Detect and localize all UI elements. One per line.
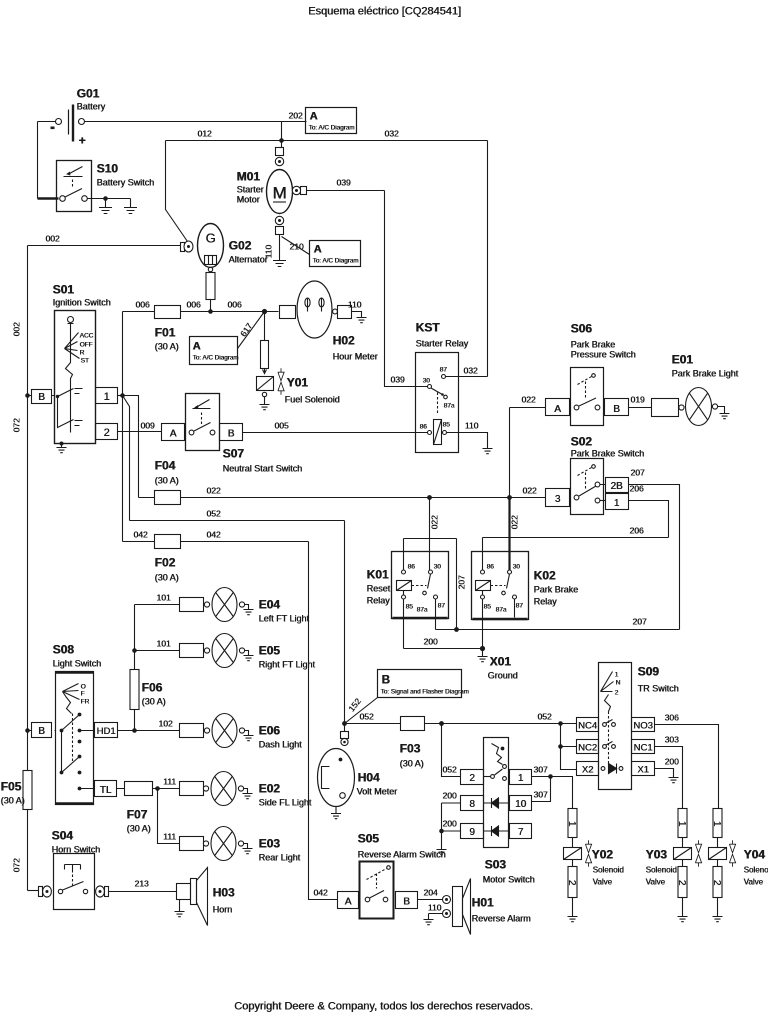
svg-text:2: 2 <box>103 427 109 439</box>
svg-text:E05: E05 <box>259 644 281 658</box>
svg-text:N: N <box>616 680 621 687</box>
svg-text:E03: E03 <box>259 837 281 851</box>
svg-text:8: 8 <box>469 799 475 810</box>
svg-text:G02: G02 <box>229 239 252 253</box>
svg-text:Park Brake: Park Brake <box>534 585 579 595</box>
svg-text:022: 022 <box>206 486 220 496</box>
svg-text:S02: S02 <box>571 435 593 449</box>
svg-text:NC4: NC4 <box>578 721 597 732</box>
svg-text:052: 052 <box>442 765 456 775</box>
svg-text:Neutral Start Switch: Neutral Start Switch <box>223 464 303 474</box>
svg-text:OFF: OFF <box>80 342 93 349</box>
svg-text:Motor: Motor <box>237 195 260 205</box>
svg-text:111: 111 <box>163 777 176 787</box>
svg-text:TL: TL <box>100 785 112 796</box>
svg-text:S09: S09 <box>638 665 660 679</box>
svg-text:(30 A): (30 A) <box>400 759 424 769</box>
svg-text:Fuel Solenoid: Fuel Solenoid <box>285 395 340 405</box>
svg-text:A: A <box>314 244 322 256</box>
svg-text:Park Brake Light: Park Brake Light <box>672 369 739 379</box>
svg-text:Reverse Alarm Switch: Reverse Alarm Switch <box>358 850 446 860</box>
svg-text:M01: M01 <box>237 170 261 184</box>
svg-text:85: 85 <box>406 604 414 611</box>
svg-text:Starter Relay: Starter Relay <box>416 339 469 349</box>
svg-text:1: 1 <box>711 821 722 827</box>
svg-text:X2: X2 <box>582 765 594 776</box>
svg-text:Alternator: Alternator <box>229 255 268 265</box>
svg-text:Reset: Reset <box>367 584 391 594</box>
svg-text:Solenoid: Solenoid <box>593 866 624 875</box>
svg-text:206: 206 <box>629 526 643 536</box>
svg-text:Y01: Y01 <box>287 376 309 390</box>
svg-text:Valve: Valve <box>744 878 764 887</box>
svg-text:022: 022 <box>510 515 520 529</box>
svg-text:86: 86 <box>408 564 416 571</box>
svg-text:Left FT Light: Left FT Light <box>259 614 310 624</box>
svg-text:87a: 87a <box>417 607 428 614</box>
svg-text:072: 072 <box>12 418 22 432</box>
svg-text:Y03: Y03 <box>646 848 668 862</box>
svg-text:2B: 2B <box>610 481 623 492</box>
svg-text:2: 2 <box>711 880 722 886</box>
svg-text:30: 30 <box>423 378 431 385</box>
svg-text:(30 A): (30 A) <box>155 342 179 352</box>
svg-text:B: B <box>613 404 620 415</box>
svg-text:072: 072 <box>12 858 22 872</box>
svg-text:Side FL Light: Side FL Light <box>259 798 312 808</box>
svg-text:A: A <box>310 111 318 123</box>
svg-text:200: 200 <box>665 757 679 767</box>
svg-text:30: 30 <box>513 564 521 571</box>
svg-text:110: 110 <box>428 903 442 913</box>
svg-text:Solenoid: Solenoid <box>744 866 768 875</box>
svg-text:1: 1 <box>676 821 687 827</box>
svg-text:A: A <box>345 897 352 908</box>
svg-text:S07: S07 <box>223 447 245 461</box>
svg-text:Park Brake: Park Brake <box>571 340 616 350</box>
svg-text:307: 307 <box>533 790 547 800</box>
svg-text:039: 039 <box>390 375 404 385</box>
svg-text:A: A <box>193 341 201 353</box>
svg-text:E06: E06 <box>259 724 281 738</box>
svg-text:E01: E01 <box>672 353 694 367</box>
svg-text:006: 006 <box>227 300 241 310</box>
svg-text:S04: S04 <box>52 829 74 843</box>
svg-text:005: 005 <box>274 421 288 431</box>
svg-text:87a: 87a <box>496 607 507 614</box>
svg-text:202: 202 <box>288 111 302 121</box>
svg-text:019: 019 <box>630 395 644 405</box>
svg-text:Volt Meter: Volt Meter <box>357 787 398 797</box>
svg-text:207: 207 <box>457 575 467 589</box>
svg-text:(30 A): (30 A) <box>1 796 25 806</box>
svg-text:B: B <box>403 897 410 908</box>
svg-text:Copyright Deere & Company, tod: Copyright Deere & Company, todos los der… <box>234 1001 533 1013</box>
svg-text:K02: K02 <box>534 569 556 583</box>
svg-text:200: 200 <box>442 819 456 829</box>
svg-text:Y04: Y04 <box>744 848 766 862</box>
svg-text:To: Signal and Flasher Diagram: To: Signal and Flasher Diagram <box>381 689 469 696</box>
svg-text:110: 110 <box>465 421 479 431</box>
svg-text:200: 200 <box>442 791 456 801</box>
svg-text:1: 1 <box>615 672 619 679</box>
svg-text:111: 111 <box>163 832 176 842</box>
svg-text:213: 213 <box>134 879 148 889</box>
svg-text:303: 303 <box>665 735 679 745</box>
svg-text:Starter: Starter <box>237 185 264 195</box>
svg-text:306: 306 <box>665 713 679 723</box>
svg-text:200: 200 <box>423 637 437 647</box>
svg-text:009: 009 <box>140 421 154 431</box>
svg-text:F: F <box>81 691 85 698</box>
svg-text:1: 1 <box>566 821 577 827</box>
svg-text:307: 307 <box>533 765 547 775</box>
svg-text:Reverse Alarm: Reverse Alarm <box>472 914 531 924</box>
svg-text:O: O <box>81 684 86 691</box>
svg-text:Battery Switch: Battery Switch <box>97 178 155 188</box>
svg-text:Battery: Battery <box>77 102 106 112</box>
svg-text:R: R <box>80 350 85 357</box>
svg-text:NC2: NC2 <box>578 743 597 754</box>
svg-text:1: 1 <box>518 773 524 784</box>
svg-text:S08: S08 <box>53 643 75 657</box>
svg-text:2: 2 <box>566 880 577 886</box>
svg-text:A: A <box>170 429 177 440</box>
svg-text:022: 022 <box>521 395 535 405</box>
svg-text:Pressure Switch: Pressure Switch <box>571 350 636 360</box>
svg-text:052: 052 <box>206 509 220 519</box>
svg-text:F03: F03 <box>400 742 421 756</box>
svg-text:H02: H02 <box>333 334 355 348</box>
svg-text:B: B <box>382 675 390 687</box>
svg-text:(30 A): (30 A) <box>127 824 151 834</box>
svg-text:H04: H04 <box>358 771 380 785</box>
svg-text:(30 A): (30 A) <box>155 573 179 583</box>
svg-text:S06: S06 <box>571 322 593 336</box>
svg-text:207: 207 <box>632 617 646 627</box>
svg-text:022: 022 <box>522 486 536 496</box>
svg-text:Relay: Relay <box>367 596 391 606</box>
svg-text:Dash Light: Dash Light <box>259 740 303 750</box>
svg-text:052: 052 <box>359 712 373 722</box>
svg-text:(30 A): (30 A) <box>155 476 179 486</box>
svg-text:(30 A): (30 A) <box>142 697 166 707</box>
svg-text:Relay: Relay <box>534 597 558 607</box>
svg-text:2: 2 <box>615 690 619 697</box>
svg-text:032: 032 <box>384 129 398 139</box>
svg-text:Ignition Switch: Ignition Switch <box>53 298 111 308</box>
svg-text:M: M <box>272 184 286 203</box>
svg-text:052: 052 <box>537 712 551 722</box>
svg-text:F05: F05 <box>1 780 22 794</box>
svg-text:Solenoid: Solenoid <box>646 866 677 875</box>
svg-text:002: 002 <box>45 234 59 244</box>
svg-text:K01: K01 <box>367 568 389 582</box>
svg-text:To: A/C Diagram: To: A/C Diagram <box>313 258 359 265</box>
svg-text:3: 3 <box>555 494 561 505</box>
svg-text:F02: F02 <box>155 556 176 570</box>
svg-text:210: 210 <box>289 242 303 252</box>
svg-text:ST: ST <box>81 358 89 365</box>
svg-text:F07: F07 <box>127 808 148 822</box>
svg-text:2: 2 <box>676 880 687 886</box>
svg-text:207: 207 <box>630 468 644 478</box>
svg-text:+: + <box>79 134 86 148</box>
svg-text:1: 1 <box>614 498 620 509</box>
svg-text:86: 86 <box>487 564 495 571</box>
svg-text:101: 101 <box>156 593 170 603</box>
svg-text:F01: F01 <box>155 326 176 340</box>
svg-text:Y02: Y02 <box>592 848 614 862</box>
svg-text:H03: H03 <box>213 886 235 900</box>
svg-text:TR Switch: TR Switch <box>638 684 679 694</box>
svg-text:NO3: NO3 <box>633 721 653 732</box>
svg-text:Valve: Valve <box>593 878 613 887</box>
svg-text:87: 87 <box>516 603 524 610</box>
svg-text:Light Switch: Light Switch <box>53 659 102 669</box>
svg-text:039: 039 <box>336 178 350 188</box>
svg-text:KST: KST <box>416 321 441 335</box>
svg-text:9: 9 <box>469 827 475 838</box>
svg-text:Ground: Ground <box>488 671 518 681</box>
svg-text:042: 042 <box>313 888 327 898</box>
svg-text:B: B <box>38 392 45 403</box>
svg-text:G: G <box>205 231 215 246</box>
svg-text:206: 206 <box>629 484 643 494</box>
svg-text:10: 10 <box>515 799 527 810</box>
svg-text:85: 85 <box>443 422 451 429</box>
svg-text:7: 7 <box>518 827 524 838</box>
svg-text:2: 2 <box>469 773 475 784</box>
svg-text:To: A/C Diagram: To: A/C Diagram <box>309 125 355 132</box>
svg-text:B: B <box>228 429 235 440</box>
svg-text:Horn: Horn <box>213 905 233 915</box>
svg-text:S10: S10 <box>97 162 119 176</box>
svg-text:204: 204 <box>423 888 437 898</box>
svg-text:042: 042 <box>133 530 147 540</box>
svg-text:Esquema eléctrico [CQ284541]: Esquema eléctrico [CQ284541] <box>308 6 461 18</box>
svg-text:87: 87 <box>438 603 446 610</box>
svg-text:30: 30 <box>434 564 442 571</box>
svg-text:Motor Switch: Motor Switch <box>483 875 535 885</box>
svg-text:To: A/C Diagram: To: A/C Diagram <box>193 355 239 362</box>
svg-text:006: 006 <box>186 300 200 310</box>
svg-text:85: 85 <box>484 604 492 611</box>
svg-text:102: 102 <box>158 719 172 729</box>
svg-text:NC1: NC1 <box>633 743 652 754</box>
svg-text:Hour Meter: Hour Meter <box>333 352 378 362</box>
svg-text:042: 042 <box>206 530 220 540</box>
svg-text:032: 032 <box>463 366 477 376</box>
svg-text:Valve: Valve <box>646 878 666 887</box>
svg-text:Park Brake Switch: Park Brake Switch <box>571 449 645 459</box>
svg-text:A: A <box>554 404 561 415</box>
svg-text:FR: FR <box>81 699 90 706</box>
svg-text:S03: S03 <box>485 858 507 872</box>
svg-text:006: 006 <box>135 300 149 310</box>
svg-text:S01: S01 <box>53 283 75 297</box>
svg-text:87: 87 <box>440 367 448 374</box>
svg-text:87a: 87a <box>444 403 455 410</box>
svg-text:Rear Light: Rear Light <box>259 853 301 863</box>
svg-text:022: 022 <box>430 515 440 529</box>
svg-text:ACC: ACC <box>80 333 94 340</box>
svg-text:H01: H01 <box>472 896 494 910</box>
svg-text:E04: E04 <box>259 598 281 612</box>
svg-text:012: 012 <box>197 129 211 139</box>
svg-text:G01: G01 <box>77 87 100 101</box>
svg-text:X01: X01 <box>490 655 512 669</box>
svg-text:X1: X1 <box>637 765 649 776</box>
svg-text:86: 86 <box>420 424 428 431</box>
svg-text:F04: F04 <box>155 459 176 473</box>
svg-text:B: B <box>38 726 45 737</box>
svg-text:002: 002 <box>12 322 22 336</box>
svg-text:HD1: HD1 <box>96 726 115 737</box>
svg-text:101: 101 <box>156 639 170 649</box>
svg-text:Right FT Light: Right FT Light <box>259 660 316 670</box>
svg-text:E02: E02 <box>259 782 281 796</box>
svg-text:110: 110 <box>348 300 362 310</box>
svg-text:F06: F06 <box>142 681 163 695</box>
svg-text:S05: S05 <box>358 832 380 846</box>
svg-text:1: 1 <box>103 391 109 403</box>
